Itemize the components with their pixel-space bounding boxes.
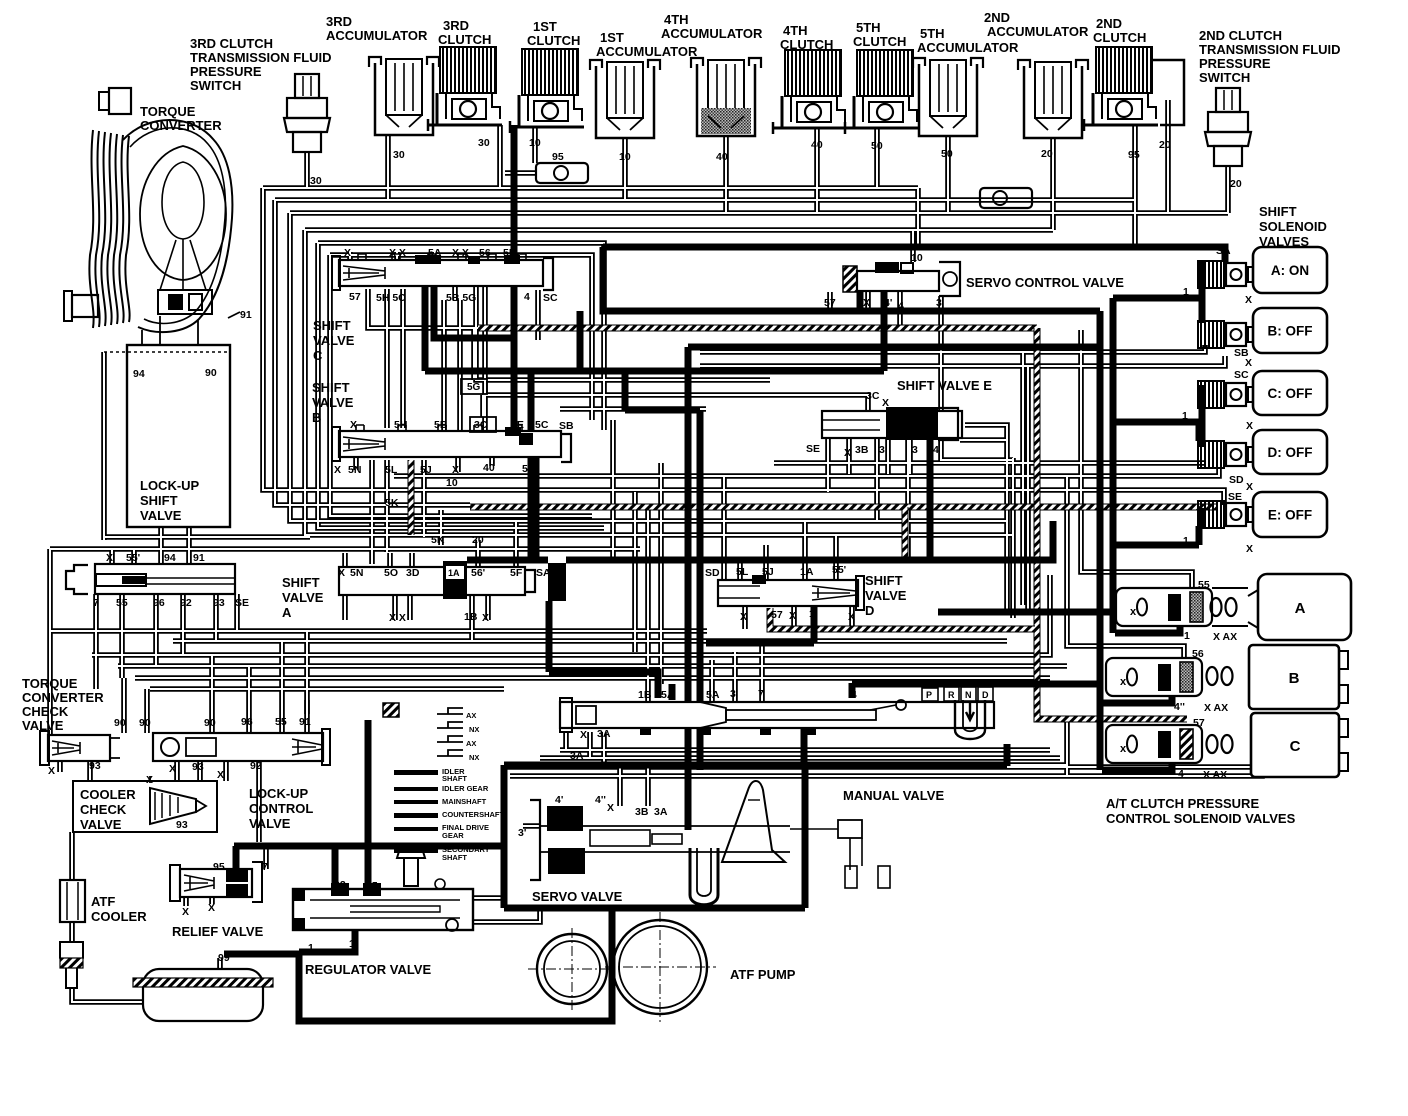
svg-text:SE: SE <box>806 443 820 455</box>
svg-text:X: X <box>452 464 459 476</box>
svg-text:X: X <box>334 464 341 476</box>
svg-text:X: X <box>1246 420 1253 432</box>
svg-text:N: N <box>965 690 972 700</box>
svg-text:94: 94 <box>164 552 176 564</box>
svg-text:C: C <box>313 348 323 363</box>
svg-text:IDLER GEAR: IDLER GEAR <box>442 784 489 793</box>
svg-text:3C: 3C <box>866 390 880 402</box>
svg-text:SHIFT: SHIFT <box>282 575 320 590</box>
svg-text:50: 50 <box>941 148 953 160</box>
svg-text:x: x <box>1120 676 1127 688</box>
svg-text:4TH: 4TH <box>664 12 689 27</box>
svg-text:X: X <box>48 765 55 777</box>
svg-text:TRANSMISSION FLUID: TRANSMISSION FLUID <box>1199 42 1341 57</box>
svg-text:5H 5C: 5H 5C <box>376 292 406 304</box>
svg-text:4': 4' <box>555 794 563 806</box>
svg-text:A: ON: A: ON <box>1271 263 1309 278</box>
svg-text:2ND: 2ND <box>1096 16 1122 31</box>
svg-text:X: X <box>848 611 855 623</box>
svg-text:93: 93 <box>176 819 188 831</box>
svg-text:4TH: 4TH <box>783 23 808 38</box>
svg-text:REGULATOR VALVE: REGULATOR VALVE <box>305 962 431 977</box>
svg-text:4: 4 <box>898 300 904 312</box>
svg-text:CONTROL SOLENOID VALVES: CONTROL SOLENOID VALVES <box>1106 811 1296 826</box>
svg-text:1: 1 <box>1184 630 1190 642</box>
svg-text:SD: SD <box>705 567 720 579</box>
svg-text:X: X <box>863 297 870 309</box>
svg-text:VALVE: VALVE <box>865 588 907 603</box>
svg-text:MAINSHAFT: MAINSHAFT <box>442 797 487 806</box>
svg-text:X: X <box>338 567 345 579</box>
svg-text:3: 3 <box>936 297 942 309</box>
svg-text:56': 56' <box>471 567 485 579</box>
svg-text:3RD: 3RD <box>326 14 352 29</box>
svg-text:ATF PUMP: ATF PUMP <box>730 967 796 982</box>
svg-text:X AX: X AX <box>1213 631 1237 643</box>
svg-text:SHAFT: SHAFT <box>442 774 467 783</box>
svg-text:X: X <box>169 763 176 775</box>
svg-text:5C: 5C <box>535 419 549 431</box>
svg-text:B: OFF: B: OFF <box>1268 324 1313 339</box>
svg-text:SHIFT: SHIFT <box>140 493 178 508</box>
svg-text:90: 90 <box>114 717 126 729</box>
svg-text:95: 95 <box>366 880 378 892</box>
svg-text:5N: 5N <box>350 567 363 579</box>
svg-text:X AX: X AX <box>1203 769 1227 781</box>
svg-text:5A: 5A <box>706 689 720 701</box>
svg-text:55: 55 <box>275 716 287 728</box>
svg-text:C: C <box>1290 738 1301 755</box>
svg-text:VALVE: VALVE <box>313 333 355 348</box>
svg-text:VALVES: VALVES <box>1259 234 1309 249</box>
svg-text:96: 96 <box>153 597 165 609</box>
svg-text:4: 4 <box>851 689 857 701</box>
svg-text:VALVE: VALVE <box>22 718 64 733</box>
svg-text:5F: 5F <box>522 463 535 475</box>
svg-text:5F: 5F <box>510 567 523 579</box>
svg-text:A: A <box>282 605 292 620</box>
svg-text:X: X <box>882 397 889 409</box>
svg-text:CONVERTER: CONVERTER <box>22 690 104 705</box>
svg-text:MANUAL VALVE: MANUAL VALVE <box>843 788 944 803</box>
svg-text:5G: 5G <box>467 382 481 393</box>
svg-text:SERVO CONTROL VALVE: SERVO CONTROL VALVE <box>966 275 1124 290</box>
svg-text:CLUTCH: CLUTCH <box>1093 30 1146 45</box>
svg-text:10: 10 <box>446 477 458 489</box>
svg-text:20: 20 <box>1230 178 1242 190</box>
svg-text:SHIFT: SHIFT <box>1259 204 1297 219</box>
svg-text:5K: 5K <box>385 497 399 509</box>
svg-text:SHIFT VALVE E: SHIFT VALVE E <box>897 378 992 393</box>
svg-text:D: OFF: D: OFF <box>1268 445 1313 460</box>
svg-text:1: 1 <box>349 938 355 950</box>
svg-text:E: OFF: E: OFF <box>1268 508 1312 523</box>
svg-text:1: 1 <box>1183 535 1189 547</box>
svg-text:55': 55' <box>832 564 846 576</box>
svg-text:GEAR: GEAR <box>442 831 464 840</box>
svg-text:X: X <box>580 729 587 741</box>
svg-text:91: 91 <box>193 552 205 564</box>
svg-text:X: X <box>146 774 153 786</box>
svg-text:20: 20 <box>472 534 484 546</box>
svg-text:CHECK: CHECK <box>80 802 127 817</box>
svg-text:SWITCH: SWITCH <box>1199 70 1250 85</box>
svg-text:57: 57 <box>349 291 361 303</box>
svg-text:7: 7 <box>758 688 764 700</box>
svg-text:x: x <box>1130 606 1137 618</box>
svg-text:AX: AX <box>466 739 476 748</box>
svg-text:1ST: 1ST <box>533 19 557 34</box>
svg-text:5L: 5L <box>736 566 749 578</box>
svg-text:1B: 1B <box>638 689 652 701</box>
svg-text:SE: SE <box>1228 491 1242 503</box>
svg-text:1: 1 <box>808 726 814 738</box>
svg-text:VALVE: VALVE <box>80 817 122 832</box>
svg-text:40: 40 <box>483 462 495 474</box>
svg-text:5B 5G: 5B 5G <box>446 292 476 304</box>
svg-text:X: X <box>217 769 224 781</box>
svg-text:1ST: 1ST <box>600 30 624 45</box>
svg-text:ACCUMULATOR: ACCUMULATOR <box>326 28 428 43</box>
svg-text:ACCUMULATOR: ACCUMULATOR <box>917 40 1019 55</box>
svg-text:LOCK-UP: LOCK-UP <box>249 786 309 801</box>
svg-text:LOCK-UP: LOCK-UP <box>140 478 200 493</box>
svg-text:3RD CLUTCH: 3RD CLUTCH <box>190 36 273 51</box>
svg-text:56: 56 <box>479 247 491 259</box>
svg-text:VALVE: VALVE <box>249 816 291 831</box>
svg-text:5A: 5A <box>428 247 442 259</box>
svg-text:3: 3 <box>912 444 918 456</box>
svg-text:SB: SB <box>559 420 574 432</box>
svg-text:NX: NX <box>469 725 479 734</box>
svg-text:20: 20 <box>1159 139 1171 151</box>
svg-text:57: 57 <box>771 609 783 621</box>
svg-text:SHIFT: SHIFT <box>313 318 351 333</box>
svg-text:5B: 5B <box>434 419 448 431</box>
svg-text:TORQUE: TORQUE <box>140 104 196 119</box>
svg-text:A/T CLUTCH PRESSURE: A/T CLUTCH PRESSURE <box>1106 796 1259 811</box>
svg-text:C: OFF: C: OFF <box>1268 386 1313 401</box>
svg-text:3: 3 <box>730 688 736 700</box>
svg-text:X: X <box>106 552 113 564</box>
svg-text:X X: X X <box>452 247 469 259</box>
svg-text:40: 40 <box>716 151 728 163</box>
svg-text:55: 55 <box>1198 579 1210 591</box>
svg-text:SE: SE <box>235 597 249 609</box>
svg-text:TORQUE: TORQUE <box>22 676 78 691</box>
svg-text:5K: 5K <box>431 534 445 546</box>
svg-text:30: 30 <box>310 175 322 187</box>
svg-text:5O: 5O <box>384 567 398 579</box>
svg-text:5A: 5A <box>661 689 675 701</box>
svg-text:X: X <box>844 447 851 459</box>
svg-text:90: 90 <box>205 367 217 379</box>
svg-text:X: X <box>1246 481 1253 493</box>
svg-text:VALVE: VALVE <box>140 508 182 523</box>
svg-text:3A: 3A <box>570 750 584 762</box>
svg-text:1: 1 <box>809 608 815 620</box>
svg-text:92: 92 <box>180 597 192 609</box>
svg-text:1: 1 <box>1183 286 1189 298</box>
svg-text:50: 50 <box>871 140 883 152</box>
svg-text:CONVERTER: CONVERTER <box>140 118 222 133</box>
svg-text:3C: 3C <box>474 419 488 431</box>
svg-text:90: 90 <box>204 717 216 729</box>
svg-text:SHAFT: SHAFT <box>442 853 467 862</box>
svg-text:SERVO VALVE: SERVO VALVE <box>532 889 623 904</box>
svg-text:X: X <box>350 419 357 431</box>
svg-text:P: P <box>926 690 932 700</box>
svg-text:4: 4 <box>933 444 939 456</box>
svg-text:NX: NX <box>469 753 479 762</box>
svg-text:COOLER: COOLER <box>80 787 136 802</box>
svg-text:CLUTCH: CLUTCH <box>527 33 580 48</box>
svg-text:3B: 3B <box>855 444 869 456</box>
svg-text:5N: 5N <box>348 464 361 476</box>
svg-text:10: 10 <box>529 137 541 149</box>
svg-text:30: 30 <box>478 137 490 149</box>
svg-text:X: X <box>482 612 489 624</box>
svg-text:92: 92 <box>250 760 262 772</box>
svg-text:1A: 1A <box>448 568 460 578</box>
svg-text:95: 95 <box>213 861 225 873</box>
svg-text:X: X <box>607 802 614 814</box>
svg-text:10: 10 <box>619 151 631 163</box>
svg-text:1: 1 <box>308 942 314 954</box>
svg-text:3B: 3B <box>635 806 649 818</box>
svg-text:7: 7 <box>262 861 268 873</box>
svg-text:B: B <box>312 410 321 425</box>
svg-text:92: 92 <box>334 879 346 891</box>
svg-text:5J: 5J <box>762 566 774 578</box>
svg-text:4: 4 <box>1178 768 1184 780</box>
svg-text:95: 95 <box>552 151 564 163</box>
svg-text:CONTROL: CONTROL <box>249 801 313 816</box>
svg-text:30: 30 <box>393 149 405 161</box>
svg-text:ATF: ATF <box>91 894 115 909</box>
svg-text:4: 4 <box>524 291 530 303</box>
svg-text:5TH: 5TH <box>920 26 945 41</box>
svg-text:SD: SD <box>1229 474 1244 486</box>
svg-text:D: D <box>865 603 874 618</box>
svg-text:X AX: X AX <box>1204 702 1228 714</box>
svg-text:D: D <box>982 690 989 700</box>
svg-text:55': 55' <box>126 552 140 564</box>
svg-text:CHECK: CHECK <box>22 704 69 719</box>
svg-text:3A: 3A <box>654 806 668 818</box>
svg-text:4'': 4'' <box>1174 701 1185 713</box>
svg-text:40: 40 <box>811 139 823 151</box>
svg-text:X: X <box>789 610 796 622</box>
svg-text:X: X <box>1245 357 1252 369</box>
svg-text:X: X <box>1246 543 1253 555</box>
svg-text:3': 3' <box>879 444 887 456</box>
svg-text:CLUTCH: CLUTCH <box>853 34 906 49</box>
svg-text:ACCUMULATOR: ACCUMULATOR <box>987 24 1089 39</box>
svg-text:COUNTERSHAFT: COUNTERSHAFT <box>442 810 504 819</box>
svg-text:90: 90 <box>139 717 151 729</box>
svg-text:56: 56 <box>1192 648 1204 660</box>
svg-text:4'': 4'' <box>595 794 606 806</box>
svg-text:93: 93 <box>213 597 225 609</box>
svg-text:CLUTCH: CLUTCH <box>780 37 833 52</box>
svg-text:X: X <box>208 902 215 914</box>
svg-text:SHIFT: SHIFT <box>312 380 350 395</box>
svg-text:2ND CLUTCH: 2ND CLUTCH <box>1199 28 1282 43</box>
svg-text:5E: 5E <box>511 419 524 431</box>
svg-text:5E: 5E <box>503 247 516 259</box>
svg-text:VALVE: VALVE <box>312 395 354 410</box>
svg-text:x: x <box>1120 743 1127 755</box>
svg-text:PRESSURE: PRESSURE <box>190 64 262 79</box>
svg-text:X: X <box>344 247 351 259</box>
svg-text:94: 94 <box>133 368 145 380</box>
svg-text:57: 57 <box>1193 717 1205 729</box>
svg-text:5H: 5H <box>394 419 407 431</box>
svg-text:SC: SC <box>1234 369 1249 381</box>
svg-text:R: R <box>948 690 955 700</box>
svg-text:91: 91 <box>299 716 311 728</box>
svg-text:VALVE: VALVE <box>282 590 324 605</box>
svg-text:TRANSMISSION FLUID: TRANSMISSION FLUID <box>190 50 332 65</box>
svg-text:SC: SC <box>543 292 558 304</box>
svg-text:SWITCH: SWITCH <box>190 78 241 93</box>
svg-text:5J: 5J <box>420 464 432 476</box>
svg-text:SHIFT: SHIFT <box>865 573 903 588</box>
svg-text:99: 99 <box>218 952 230 964</box>
svg-text:4': 4' <box>884 297 892 309</box>
svg-text:X: X <box>182 906 189 918</box>
svg-text:A: A <box>1295 600 1306 617</box>
svg-text:96: 96 <box>241 716 253 728</box>
svg-text:X: X <box>1245 294 1252 306</box>
svg-text:1: 1 <box>1182 410 1188 422</box>
svg-text:AX: AX <box>466 711 476 720</box>
svg-text:SOLENOID: SOLENOID <box>1259 219 1327 234</box>
svg-text:ACCUMULATOR: ACCUMULATOR <box>661 26 763 41</box>
svg-text:20: 20 <box>1041 148 1053 160</box>
svg-text:1B: 1B <box>464 611 478 623</box>
svg-text:10: 10 <box>911 252 923 264</box>
svg-text:PRESSURE: PRESSURE <box>1199 56 1271 71</box>
svg-text:91: 91 <box>240 309 252 321</box>
svg-text:3A: 3A <box>597 728 611 740</box>
svg-text:X X: X X <box>389 247 406 259</box>
svg-text:7: 7 <box>93 597 99 609</box>
svg-text:RELIEF VALVE: RELIEF VALVE <box>172 924 264 939</box>
svg-text:5L: 5L <box>385 464 398 476</box>
svg-text:SA: SA <box>536 567 551 579</box>
svg-text:5TH: 5TH <box>856 20 881 35</box>
svg-text:CLUTCH: CLUTCH <box>438 32 491 47</box>
svg-text:COOLER: COOLER <box>91 909 147 924</box>
svg-text:93: 93 <box>192 761 204 773</box>
svg-text:B: B <box>1289 670 1300 687</box>
svg-text:55: 55 <box>116 597 128 609</box>
svg-text:X X: X X <box>389 612 406 624</box>
svg-text:SA: SA <box>1216 245 1231 257</box>
svg-text:95: 95 <box>1128 149 1140 161</box>
svg-text:ACCUMULATOR: ACCUMULATOR <box>596 44 698 59</box>
svg-text:57: 57 <box>824 297 836 309</box>
svg-text:3D: 3D <box>406 567 420 579</box>
svg-text:93: 93 <box>89 760 101 772</box>
svg-text:3RD: 3RD <box>443 18 469 33</box>
svg-text:2ND: 2ND <box>984 10 1010 25</box>
svg-text:3': 3' <box>518 827 526 839</box>
svg-text:1A: 1A <box>800 566 814 578</box>
svg-text:X: X <box>740 611 747 623</box>
